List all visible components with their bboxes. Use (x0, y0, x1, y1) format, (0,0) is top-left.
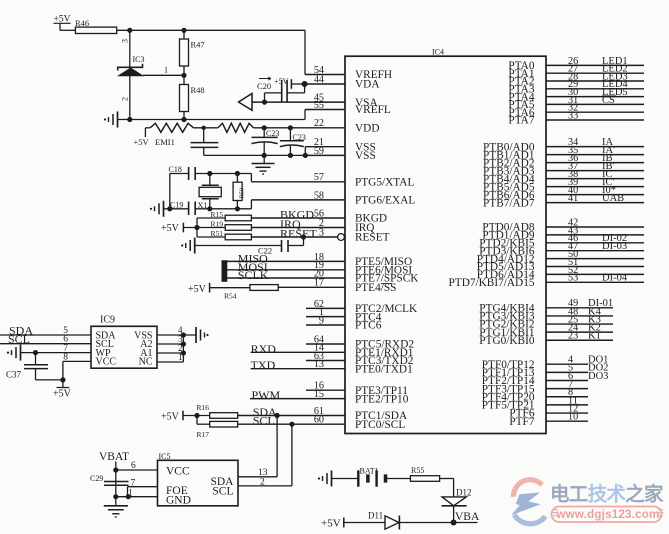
svg-text:C23: C23 (266, 129, 279, 138)
wire +5V to VDA node (291, 83, 304, 85)
IC4 pin 2 wire (IRQ) (251, 227, 345, 229)
resistor R50 (parallel with crystal) (236, 174, 238, 183)
svg-text:VDD: VDD (355, 123, 379, 135)
node junction SDA drop (275, 413, 280, 418)
IC4 right pin 29 wire (546, 88, 644, 90)
svg-text:VDA: VDA (355, 79, 380, 91)
IC4 pin 16 wire (PTE3/TP11) (306, 389, 345, 391)
wire IC9 pin 3 (157, 343, 183, 345)
IC4 pin 60 wire (PTC0/SCL) (238, 423, 345, 425)
svg-text:VBA: VBA (455, 511, 480, 523)
wire VREFL elbow (304, 110, 306, 120)
node junction C37 tap (33, 350, 38, 355)
wire R48 to ground rail (183, 112, 185, 120)
IC4 pin 15 wire (PTE2/TP10) (250, 398, 345, 400)
IC4 pin 14 wire (PTE1/RXD1) (251, 351, 345, 353)
svg-text:SCL: SCL (212, 485, 233, 497)
inductor EMI1 first winding (145, 127, 150, 129)
ground (crystal, sideways) (163, 201, 165, 217)
IC4 right pin 52 wire (546, 273, 644, 275)
node VBA (451, 520, 457, 526)
svg-text:R15: R15 (211, 210, 224, 219)
svg-text:TXD: TXD (251, 358, 276, 372)
zener diode IC3 (118, 64, 143, 71)
capacitor C22 (281, 240, 283, 252)
svg-text:NC: NC (139, 357, 153, 368)
svg-text:VSS: VSS (355, 150, 376, 162)
wire C19 right to EXAL node (195, 208, 251, 210)
wire C20 right plate to VDA node (287, 92, 305, 94)
svg-text:R16: R16 (197, 403, 210, 412)
IC4 right pin 10 wire (546, 420, 588, 422)
wire IC9 pin 6 (SCL) (0, 343, 91, 345)
wire VBAT vertical (115, 462, 117, 506)
svg-text:1: 1 (164, 64, 168, 74)
svg-text:R55: R55 (411, 466, 424, 475)
wire D12 to VBA node (453, 506, 455, 523)
svg-text:PTG6/EXAL: PTG6/EXAL (355, 195, 415, 207)
svg-text:10: 10 (568, 412, 578, 423)
IC U4/IC4 microcontroller body (345, 56, 546, 433)
svg-text:D11: D11 (368, 510, 383, 520)
wire IC3 cathode (129, 30, 131, 67)
IC4 pin 45 wire (VSA) (252, 101, 345, 103)
wire R47 to node 1 (183, 66, 185, 75)
svg-text:VCC: VCC (96, 357, 117, 368)
IC4 right pin 26 wire (546, 64, 644, 66)
wire VCC down to +5V (62, 361, 64, 387)
power +5V (below IC9) (57, 387, 70, 389)
IC4 pin 64 wire (PTC5/RXD2) (306, 343, 345, 345)
node junctions IC9 right bus (181, 332, 186, 337)
svg-text:PTG0/KBI0: PTG0/KBI0 (479, 335, 535, 347)
inductor EMI1 second winding (218, 123, 254, 132)
svg-text:D12: D12 (456, 487, 472, 497)
svg-text:DI-03: DI-03 (602, 241, 627, 252)
IC4 pin 44 wire (VDA) (305, 83, 345, 85)
wire IC5 pin 7 (FOE) (128, 486, 158, 488)
svg-text:9: 9 (319, 315, 324, 326)
node junction +5V bank (194, 225, 199, 230)
resistor R54 (250, 285, 278, 291)
svg-text:8: 8 (63, 352, 68, 362)
IC4 right pin 32 wire (546, 111, 644, 113)
svg-text:58: 58 (314, 190, 324, 201)
IC4 right pin 35 wire (546, 154, 644, 156)
svg-text:PTG5/XTAL: PTG5/XTAL (355, 177, 414, 189)
wire VSS ground bus (204, 154, 306, 156)
node junction IC3-ground rail (127, 117, 132, 122)
wire pin21 elbow (304, 147, 306, 156)
svg-text:R19: R19 (211, 219, 224, 228)
svg-text:44: 44 (314, 74, 324, 85)
wire R46 to VREFH vertical (117, 29, 305, 31)
wire SDA down to IC5 pin13 (276, 416, 278, 477)
svg-text:53: 53 (568, 273, 578, 284)
wire between windings (194, 127, 219, 129)
wire C20 left plate to VSA line (265, 92, 282, 94)
wire bank vertical (196, 218, 198, 237)
wire C22 to ground (195, 245, 281, 247)
resistor R16 (210, 413, 238, 419)
svg-text:SCLK: SCLK (238, 268, 269, 282)
svg-text:BAT1: BAT1 (360, 467, 379, 476)
svg-text:2: 2 (121, 97, 130, 101)
svg-text:PTA7: PTA7 (508, 115, 534, 127)
svg-text:IC4: IC4 (432, 48, 444, 57)
wire R55 to D12 (440, 478, 454, 480)
wire IC9 pin 4 (157, 334, 196, 336)
svg-text:+5V: +5V (188, 284, 207, 295)
svg-text:VBAT: VBAT (99, 451, 129, 463)
IC4 right pin 4 wire (546, 363, 588, 365)
IC4 right pin 34 wire (546, 146, 644, 148)
IC4 right pin 37 wire (546, 170, 644, 172)
IC9 body (91, 326, 157, 368)
IC4 right pin 5 wire (546, 371, 588, 373)
wire C37 to +5V node (36, 379, 63, 381)
node junction VBAT/pin6 (113, 467, 118, 472)
svg-text:IC9: IC9 (100, 315, 115, 326)
svg-text:C20: C20 (257, 81, 271, 91)
resistor R46 (75, 27, 116, 33)
svg-text:R51: R51 (211, 229, 224, 238)
svg-text:+5V: +5V (321, 518, 341, 530)
wire IC9 pin 7 (WP) (21, 352, 92, 354)
svg-text:+5V: +5V (161, 223, 180, 234)
IC4 pin 20 wire (PTE7/SPSCK) (227, 277, 345, 279)
IC4 pin 13 wire (PTE0/TXD1) (251, 368, 345, 370)
svg-text:R54: R54 (224, 292, 237, 301)
node 1 junction (181, 73, 186, 78)
capacitor C23 (first) (262, 125, 267, 130)
IC4 right pin 38 wire (546, 178, 644, 180)
IC4 right pin 8 wire (546, 396, 588, 398)
wire VREFH vertical (304, 30, 306, 74)
node junction +5V/C37 (60, 377, 65, 382)
diode D11 (385, 516, 399, 529)
IC4 pin 21 wire (VSS) (305, 146, 345, 148)
ground (IC9 right side) (195, 327, 197, 343)
svg-text:R17: R17 (197, 430, 210, 439)
svg-text:+5V: +5V (134, 137, 150, 147)
resistor R17 (210, 421, 238, 427)
node junction at R47 top (181, 28, 186, 33)
resistor R55 (410, 476, 439, 482)
svg-text:UAB: UAB (602, 193, 624, 204)
battery BAT1 (357, 470, 359, 486)
svg-text:R50: R50 (239, 188, 246, 199)
wire IC9 pin 5 (SDA) (0, 334, 91, 336)
node junctions on EXAL bottom wire (167, 206, 172, 211)
svg-text:www.dgjs123.com: www.dgjs123.com (555, 508, 659, 521)
svg-text:PWM: PWM (252, 388, 281, 402)
node junction GND (113, 494, 118, 499)
wire IC9 pin 2 (157, 352, 183, 354)
RESET active-low bubble at IC4 pin 3 (338, 234, 345, 241)
IC4 pin 1 wire (PTC4) (306, 316, 345, 318)
IC4 pin 56 wire (BKGD) (251, 217, 345, 219)
IC4 right pin 7 wire (546, 388, 588, 390)
overline on CS (602, 95, 616, 97)
node junction R16/R17 feed (194, 413, 199, 418)
svg-text:R48: R48 (191, 85, 205, 95)
svg-text:DI-04: DI-04 (602, 273, 628, 284)
svg-text:R47: R47 (191, 40, 205, 50)
resistor R47 (183, 30, 185, 39)
IC4 right pin 24 wire (546, 331, 613, 333)
IC4 right pin 50 wire (546, 258, 644, 260)
svg-text:60: 60 (314, 415, 324, 426)
svg-text:PTD7/KBI7/AD15: PTD7/KBI7/AD15 (449, 277, 535, 289)
wire C18 left plate to ground leg (170, 173, 189, 175)
IC4 right pin 48 wire (546, 315, 613, 317)
wire RESET to C22 (303, 237, 305, 246)
IC4 pin 57 wire (PTG5/XTAL) (251, 181, 345, 183)
svg-text:R46: R46 (75, 18, 89, 28)
IC4 right pin 46 wire (546, 242, 644, 244)
svg-text:IC3: IC3 (133, 55, 145, 64)
node junction at IC3 top (127, 28, 132, 33)
svg-text:C23: C23 (293, 133, 306, 142)
wire SCL down to IC5 pin2 (291, 424, 293, 486)
node junctions on VSS bus (262, 153, 267, 158)
power +5V EMI1 feed (144, 128, 146, 137)
IC4 right pin 31 wire (546, 103, 644, 105)
svg-text:C29: C29 (90, 474, 103, 483)
wire +5V to D11 (344, 522, 385, 524)
svg-text:PTC0/SCL: PTC0/SCL (355, 419, 405, 431)
IC4 pin 18 wire (PTE5/MISO) (227, 260, 345, 262)
svg-text:+5V: +5V (53, 389, 72, 400)
IC4 right pin 39 wire (546, 186, 644, 188)
IC4 right pin 6 wire (546, 379, 588, 381)
wire IC9 pin 8 (VCC) (63, 360, 91, 362)
ground (IC9 WP, sideways) (20, 345, 22, 361)
svg-text:VCC: VCC (166, 466, 190, 478)
node junction R48-ground rail (181, 117, 186, 122)
node junction VDA (302, 81, 308, 87)
ground (below C23) (263, 155, 265, 163)
IC4 right pin 28 wire (546, 80, 644, 82)
resistor R19 (225, 225, 251, 231)
svg-text:IC5: IC5 (159, 452, 171, 461)
svg-text:59: 59 (314, 146, 324, 157)
IC4 right pin 11 wire (546, 404, 588, 406)
wire IC5 GND pin (116, 496, 158, 498)
node junction on VSA line (262, 100, 267, 105)
svg-text:CS: CS (602, 95, 615, 106)
svg-text:PTF7: PTF7 (509, 416, 534, 428)
ground (RESET pull, sideways) (194, 238, 196, 254)
svg-text:13: 13 (314, 359, 324, 370)
svg-text:GND: GND (166, 494, 191, 506)
IC4 pin 3 wire (RESET) (251, 236, 337, 238)
watermark logo (dgjs123) (513, 480, 542, 497)
IC4 pin 58 wire (PTG6/EXAL) (251, 199, 345, 201)
svg-text:K1: K1 (588, 331, 601, 342)
svg-text:55: 55 (314, 100, 324, 111)
svg-text:PTE2/TP10: PTE2/TP10 (355, 393, 409, 405)
svg-text:+5V: +5V (161, 412, 180, 423)
IC4 right pin 30 wire (546, 96, 644, 98)
capacitor C37 (35, 353, 37, 365)
svg-text:3: 3 (319, 227, 324, 238)
IC4 right pin 12 wire (546, 412, 588, 414)
wire D11 to VBA (399, 522, 453, 524)
IC4 pin 22 wire (VDD) (254, 127, 346, 129)
ground (battery, sideways) (331, 471, 333, 487)
capacitor mid-filter (unlabeled) (203, 128, 205, 143)
wire IC5 pin 2 (SCL) (238, 485, 292, 487)
IC4 pin 17 wire (PTE4/SS) (278, 286, 345, 288)
IC4 pin 63 wire (PTC3/TXD2) (306, 360, 345, 362)
resistor R15 (225, 215, 251, 221)
svg-text:41: 41 (568, 193, 578, 204)
svg-text:电工技术之家: 电工技术之家 (550, 483, 664, 506)
svg-text:EMI1: EMI1 (155, 137, 175, 147)
IC4 right pin 41 wire (546, 202, 644, 204)
wire +5V to R54 (210, 287, 250, 289)
svg-text:15: 15 (314, 389, 324, 400)
buffer/reference symbol at VSA (239, 94, 253, 111)
IC4 right pin 43 wire (546, 234, 644, 236)
svg-text:VREFL: VREFL (355, 104, 391, 116)
svg-text:6: 6 (131, 461, 136, 471)
node junction on RESET line (301, 234, 306, 239)
svg-text:DO3: DO3 (588, 371, 608, 382)
node junctions on XTAL top wire (207, 171, 212, 176)
wire ground to battery (332, 478, 359, 480)
svg-text:23: 23 (568, 331, 578, 342)
node junction mid-filter cap (202, 126, 206, 130)
watermark url box (552, 507, 662, 523)
wire ground rail (118, 119, 306, 121)
IC4 pin 9 wire (PTC6) (306, 324, 345, 326)
IC4 right pin 23 wire (546, 339, 613, 341)
IC4 pin 62 wire (PTC2/MCLK) (306, 307, 345, 309)
svg-text:22: 22 (314, 118, 324, 129)
IC4 right pin 47 wire (546, 250, 644, 252)
IC4 pin 55 wire (VREFL) (305, 109, 345, 111)
wire IC3 anode down to ground rail (129, 76, 131, 120)
svg-text:3: 3 (121, 39, 130, 43)
wire C18 right to XTAL node (195, 173, 251, 175)
svg-text:SCL: SCL (8, 332, 30, 346)
ground (left, sideways) (117, 112, 119, 128)
IC4 right pin 36 wire (546, 162, 644, 164)
svg-text:RESET: RESET (280, 227, 317, 241)
wire IC3 ref pin 1 to R47/R48 node (143, 74, 184, 76)
IC4 right pin 49 wire (546, 307, 613, 309)
connector bus bar (SPI) (222, 260, 228, 282)
IC4 pin 19 wire (PTE6/MOSI) (227, 269, 345, 271)
wire elbow to pin 57 (250, 174, 252, 182)
diode D12 (442, 497, 466, 506)
wire C19 left to ground (164, 208, 189, 210)
resistor R48 (183, 75, 185, 84)
IC4 right pin 40 wire (546, 194, 644, 196)
crystal X1 (209, 174, 211, 186)
capacitor C23 (second) (288, 125, 293, 130)
wire elbow to pin 58 (250, 200, 252, 209)
wire +5V to R46 (59, 23, 61, 30)
wire IC9 right bus (182, 335, 184, 362)
svg-text:SCL: SCL (253, 414, 275, 428)
wire +5V to R16 (183, 415, 210, 417)
IC4 right pin 25 wire (546, 323, 613, 325)
svg-text:57: 57 (314, 172, 324, 183)
wire IC5 pin 6 (116, 469, 158, 471)
svg-text:PTE0/TXD1: PTE0/TXD1 (355, 363, 413, 375)
wire +5V to resistor bank (183, 227, 225, 229)
IC4 right pin 27 wire (546, 72, 644, 74)
overline on SS of PTE4/SS (381, 283, 392, 285)
wire battery to R55 (386, 478, 411, 480)
svg-text:17: 17 (314, 278, 324, 289)
svg-text:2: 2 (260, 477, 265, 487)
IC5 body (158, 460, 239, 506)
node junction SCL drop (289, 422, 294, 427)
IC4 right pin 53 wire (546, 281, 644, 283)
IC4 right pin 33 wire (546, 119, 644, 121)
IC4 right pin 42 wire (546, 226, 644, 228)
svg-text:PTC6: PTC6 (355, 320, 382, 332)
IC4 pin 54 wire (VREFH) (305, 74, 345, 76)
svg-text:RESET: RESET (355, 232, 390, 244)
svg-text:RXD: RXD (251, 342, 277, 356)
wire IC5 pin 13 (SDA) (238, 476, 277, 478)
resistor R51 (225, 234, 251, 240)
IC4 pin 59 wire (VSS) (305, 154, 345, 156)
wire IC9 pin 1 (157, 361, 183, 363)
ground (below IC5) (104, 505, 128, 507)
capacitor C29 (104, 481, 129, 483)
svg-text:PTB7/AD7: PTB7/AD7 (483, 197, 535, 209)
polarity arrow above C20 (259, 77, 271, 80)
svg-text:C18: C18 (169, 165, 182, 174)
svg-text:C37: C37 (6, 370, 22, 380)
IC4 right pin 51 wire (546, 266, 644, 268)
capacitor C20 (281, 80, 283, 102)
IC4 pin 61 wire (PTC1/SDA) (238, 415, 345, 417)
svg-text:33: 33 (568, 110, 578, 121)
wire VBA stub (454, 522, 478, 524)
